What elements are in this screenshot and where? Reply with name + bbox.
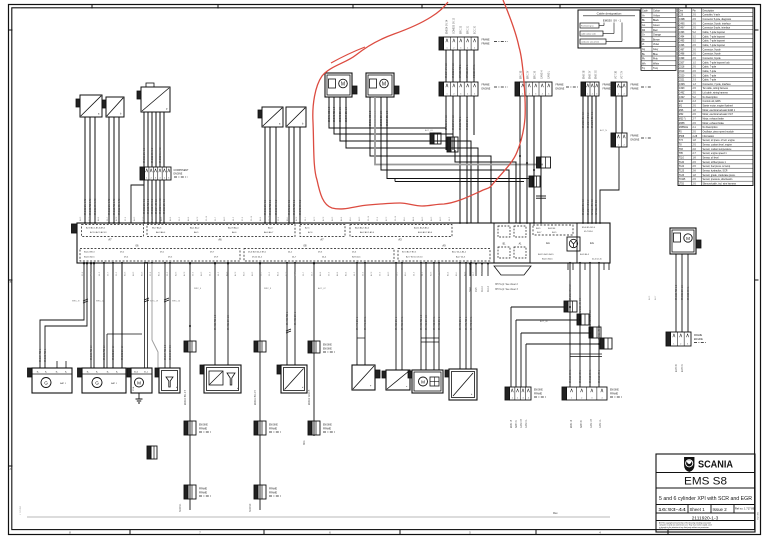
- inline connector on EGR wires: [430, 133, 434, 144]
- ENGINE FRAME connector x260: [254, 421, 281, 435]
- riser wires large aftertreatment unit: [214, 263, 216, 365]
- svg-text:T125: T125: [679, 171, 685, 173]
- frame fold marks bottom: [129, 530, 131, 535]
- svg-text:2: 2: [581, 398, 582, 400]
- svg-text:EM538 RD-1: EM538 RD-1: [460, 116, 462, 130]
- aftertreatment control unit: [200, 365, 241, 393]
- svg-text:A7-7 B7-10 07-10: A7-7 B7-10 07-10: [406, 256, 423, 259]
- svg-text:EM598 BK-2.5: EM598 BK-2.5: [170, 344, 172, 360]
- svg-text:ENGINE: ENGINE: [694, 339, 703, 341]
- svg-text:EMS3Y YE-0.8: EMS3Y YE-0.8: [588, 199, 590, 215]
- svg-text:ACC_01: ACC_01: [425, 129, 433, 132]
- svg-text:B4-14 B9-3: B4-14 B9-3: [84, 252, 95, 254]
- svg-text:Sensor, coolant level, engine: Sensor, coolant level, engine: [703, 144, 733, 147]
- vertical riser x516: [455, 150, 516, 223]
- svg-text:C499: C499: [679, 58, 685, 60]
- svg-text:EM612 GN-1: EM612 GN-1: [590, 369, 592, 383]
- svg-text:Information: Information: [703, 135, 715, 138]
- wires from connector to ECU: [143, 180, 145, 223]
- svg-text:A6: A6: [218, 238, 222, 242]
- DEF pump unit: [277, 365, 307, 393]
- svg-text:Sensor, oil level: Sensor, oil level: [703, 157, 720, 160]
- svg-text:A6-6 A6-7: A6-6 A6-7: [264, 231, 274, 234]
- motor actuator M26: [325, 73, 357, 97]
- svg-text:EM534 SV-1.5: EM534 SV-1.5: [446, 62, 448, 78]
- svg-text:A9-2 04-1 A4-2: A9-2 04-1 A4-2: [452, 251, 467, 254]
- ECU bottom row pin group 06: [80, 249, 240, 262]
- wires from sensor stack down: [143, 112, 145, 167]
- svg-text:Sensor, fuel press. w/ temp: Sensor, fuel press. w/ temp: [703, 165, 731, 168]
- svg-text:EM501 GN-0.75: EM501 GN-0.75: [95, 198, 97, 215]
- svg-text:WRC_19: WRC_19: [150, 301, 159, 303]
- EMS wires down to ECU: [582, 96, 584, 223]
- svg-text:conductor area (mm²): conductor area (mm²): [581, 41, 600, 44]
- riser wires sensor x357: [356, 263, 358, 365]
- svg-text:Blue: Blue: [653, 53, 658, 56]
- battery G1 wires staircase: [40, 263, 84, 368]
- svg-text:CAN3 H: CAN3 H: [541, 70, 544, 79]
- svg-text:EMS3G GN-0.8: EMS3G GN-0.8: [592, 111, 594, 128]
- wire motor M32 w3 staircase to ECU: [381, 97, 509, 223]
- svg-text:09-14: 09-14: [206, 215, 208, 221]
- svg-text:03-6 B23 44-5 B9-1: 03-6 B23 44-5 B9-1: [248, 252, 267, 254]
- svg-text:4: 4: [467, 94, 468, 96]
- svg-text:A7: A7: [320, 238, 324, 242]
- wires sensor x449: [459, 263, 461, 369]
- svg-text:3: 3: [591, 398, 592, 400]
- inline connector stepover 2: [577, 314, 581, 325]
- ECU top row pin group A7 second: [300, 225, 345, 237]
- svg-text:Connector 5-pole, diagnosis: Connector 5-pole, diagnosis: [703, 18, 732, 21]
- Scania griffin logo: [685, 458, 695, 472]
- svg-text:FRAME: FRAME: [556, 84, 565, 87]
- sensor stack component T85: [137, 83, 170, 112]
- svg-text:FRAME: FRAME: [603, 88, 612, 91]
- ECU top row pin group A6: [147, 225, 295, 237]
- svg-text:M26: M26: [679, 110, 684, 112]
- svg-text:C29: C29: [679, 15, 684, 17]
- svg-text:49-7 B5-6: 49-7 B5-6: [584, 231, 594, 233]
- svg-text:ERC 36: ERC 36: [535, 70, 537, 79]
- wire motor M26 w4 staircase to ECU: [346, 97, 478, 223]
- svg-text:WRC_N: WRC_N: [72, 301, 80, 303]
- CAN pair tie lines: [536, 195, 546, 197]
- svg-text:EM539 BU-1: EM539 BU-1: [467, 116, 469, 130]
- svg-text:Connector, 9-pole: Connector, 9-pole: [703, 48, 722, 51]
- svg-text:B6-7 A6-6: B6-7 A6-6: [152, 227, 162, 230]
- svg-text:T110: T110: [679, 158, 685, 160]
- svg-text:EM555 WH-0.5: EM555 WH-0.5: [160, 198, 162, 214]
- svg-text:VGT 3B: VGT 3B: [616, 70, 618, 79]
- svg-text:ACC_07: ACC_07: [318, 287, 326, 290]
- svg-text:P508: P508: [679, 136, 685, 138]
- svg-text:ERC32 RD-1: ERC32 RD-1: [460, 64, 462, 78]
- svg-text:1: 1: [446, 94, 447, 96]
- svg-text:AB Scania, Sweden: AB Scania, Sweden: [659, 528, 674, 531]
- svg-text:Connector, 9-pole: Connector, 9-pole: [703, 57, 722, 60]
- svg-text:FRAME: FRAME: [199, 428, 208, 431]
- svg-text:EM502 RD-0.75: EM502 RD-0.75: [90, 198, 92, 215]
- svg-text:EMS 3B: EMS 3B: [584, 70, 586, 79]
- svg-text:EM503 BU-0.75: EM503 BU-0.75: [85, 198, 87, 215]
- motor actuator M32: [366, 73, 399, 97]
- svg-text:2: 2: [624, 94, 625, 96]
- svg-text:EMS 16: EMS 16: [571, 419, 573, 428]
- svg-text:C519: C519: [679, 71, 685, 73]
- sensor box x386: [382, 370, 410, 390]
- wires from motor M26: [328, 97, 330, 128]
- ECU left black tab: [72, 224, 78, 233]
- svg-text:EMS S8: EMS S8: [684, 476, 727, 488]
- svg-text:09-10: 09-10: [482, 285, 484, 292]
- svg-text:C49Y: C49Y: [679, 28, 685, 30]
- svg-text:2: 2: [453, 48, 454, 50]
- svg-text:2: 2: [680, 344, 681, 346]
- sensor box x352: [352, 365, 380, 390]
- svg-text:C49Z: C49Z: [679, 93, 685, 95]
- legend colour code table: [641, 8, 676, 70]
- pin label fringe above ECU strip: [80, 215, 451, 221]
- svg-text:ACC_N: ACC_N: [600, 129, 607, 132]
- svg-text:C49N: C49N: [679, 84, 685, 86]
- wire motor M26 w1 to frame connector: [329, 97, 446, 150]
- svg-text:ENGINE: ENGINE: [556, 89, 565, 91]
- svg-text:ENGINE: ENGINE: [323, 349, 332, 351]
- svg-text:EM513 BU-0.75: EM513 BU-0.75: [109, 198, 111, 215]
- wires below lower frame connector: [445, 96, 447, 135]
- wires between frame connectors: [445, 50, 447, 82]
- svg-text:5 and 6 cylinder XPI with SCR: 5 and 6 cylinder XPI with SCR and EGR: [659, 496, 752, 502]
- ENGINE ENGINE connector x314: [308, 341, 335, 353]
- svg-text:ERC 3Y: ERC 3Y: [528, 70, 530, 79]
- svg-text:ECC30 GN-1: ECC30 GN-1: [474, 64, 476, 78]
- svg-text:No Description: No Description: [703, 126, 719, 129]
- FRAME FRAME connector x190: [184, 485, 211, 499]
- svg-text:C493: C493: [679, 32, 685, 34]
- svg-text:EM530 SV - 1: EM530 SV - 1: [603, 19, 622, 23]
- svg-text:Cable, 7-pole bayonet: Cable, 7-pole bayonet: [703, 35, 726, 38]
- wire motor M26 w2 to frame connector: [334, 97, 453, 150]
- svg-text:5: 5: [474, 94, 475, 96]
- ENGINE FRAME connector bottom right: [562, 387, 622, 400]
- svg-text:CAN 0 L: CAN 0 L: [525, 419, 528, 428]
- svg-text:EM573 GN-0.5: EM573 GN-0.5: [300, 199, 302, 215]
- DEF riser wires: [164, 263, 166, 368]
- svg-text:3: 3: [535, 94, 536, 96]
- svg-text:T85: T85: [679, 153, 684, 155]
- stepover wires to ENGINE FRAME connector left: [511, 307, 565, 387]
- svg-text:Colour: Colour: [653, 10, 660, 13]
- ECU section EG with Y symbol: [567, 237, 580, 251]
- svg-text:16:93-44: 16:93-44: [658, 507, 686, 513]
- svg-text:EM535 SV-1.5: EM535 SV-1.5: [453, 62, 455, 78]
- svg-text:CAN 0 H: CAN 0 H: [520, 419, 523, 428]
- svg-text:Oscillator, piezo speed module: Oscillator, piezo speed module: [703, 131, 735, 134]
- svg-text:5: 5: [474, 48, 475, 50]
- svg-text:T120: T120: [679, 162, 685, 164]
- ENGINE FRAME connector x190: [184, 421, 211, 435]
- gray wire to DEF: [152, 263, 158, 368]
- battery G1: [28, 368, 73, 393]
- frame connector strip upper: [439, 37, 508, 50]
- sensor T "a" box top-left: [76, 95, 102, 117]
- SCR wire with connectors x190: [189, 263, 191, 510]
- svg-text:FRAME: FRAME: [482, 43, 491, 46]
- svg-text:C496: C496: [679, 45, 685, 47]
- svg-text:04-4: 04-4: [470, 287, 472, 292]
- svg-text:3: 3: [522, 398, 523, 400]
- wires right motor down: [675, 254, 677, 332]
- svg-text:Grey: Grey: [653, 48, 659, 51]
- svg-text:T124: T124: [679, 166, 685, 168]
- svg-text:M: M: [686, 236, 690, 241]
- svg-text:FRAME: FRAME: [482, 39, 491, 42]
- svg-text:ERC 32: ERC 32: [461, 25, 463, 34]
- svg-text:Code: Code: [642, 10, 648, 13]
- EMS connector strip: [581, 82, 623, 96]
- svg-text:EXH 31: EXH 31: [682, 363, 684, 372]
- XPI note trapezoid: [494, 266, 531, 275]
- svg-text:WRC_6: WRC_6: [194, 288, 202, 290]
- svg-text:4: 4: [601, 398, 602, 400]
- svg-text:WRC_10: WRC_10: [172, 301, 181, 303]
- svg-text:Violet: Violet: [653, 43, 659, 46]
- svg-text:1: 1: [512, 398, 513, 400]
- svg-text:B-: B-: [116, 372, 118, 374]
- svg-text:T73: T73: [679, 140, 684, 142]
- svg-text:NAB30 YE-0.8: NAB30 YE-0.8: [579, 297, 582, 313]
- svg-text:ACC_06: ACC_06: [540, 320, 548, 323]
- svg-text:6: 6: [168, 178, 169, 180]
- svg-text:C520: C520: [679, 75, 685, 77]
- svg-text:EM562 RD-0.5: EM562 RD-0.5: [270, 199, 272, 215]
- svg-text:C507: C507: [679, 62, 685, 64]
- svg-text:C497: C497: [679, 49, 685, 51]
- svg-text:LT55: LT55: [679, 184, 685, 186]
- svg-text:White: White: [653, 62, 660, 65]
- svg-text:EM470 BU-1: EM470 BU-1: [460, 316, 462, 330]
- svg-text:4: 4: [542, 94, 543, 96]
- svg-text:B-: B-: [65, 372, 67, 374]
- svg-text:FRAME: FRAME: [199, 492, 208, 495]
- svg-text:Orange: Orange: [653, 34, 662, 37]
- svg-text:XPI 6-cyl: See sheet 3: XPI 6-cyl: See sheet 3: [495, 288, 518, 291]
- svg-text:09-12: 09-12: [488, 285, 490, 292]
- inline connector on wire x260: [254, 341, 258, 352]
- svg-text:5: 5: [164, 178, 165, 180]
- svg-text:3: 3: [460, 94, 461, 96]
- svg-text:1: 1: [587, 94, 588, 96]
- svg-text:M33 *): M33 *): [679, 119, 686, 121]
- svg-text:3: 3: [155, 178, 156, 180]
- svg-text:3: 3: [596, 94, 597, 96]
- svg-text:EM622 GN-1: EM622 GN-1: [688, 286, 690, 300]
- svg-text:EM594 RD-1: EM594 RD-1: [40, 348, 42, 362]
- SCR wire with connectors x260: [259, 263, 261, 510]
- svg-text:EM553 GN-0.5: EM553 GN-0.5: [152, 147, 154, 163]
- svg-text:EM620 RD-1.5: EM620 RD-1.5: [676, 284, 678, 300]
- right motor M485: [670, 228, 701, 254]
- inline connector stepover 4: [600, 338, 604, 349]
- svg-text:Red: Red: [653, 29, 658, 32]
- svg-text:XPI 5-cyl: See sheet 2: XPI 5-cyl: See sheet 2: [495, 283, 518, 286]
- svg-text:Ref no. 1 717 893: Ref no. 1 717 893: [735, 507, 756, 511]
- CAN connector strip: [515, 82, 578, 96]
- svg-text:C498: C498: [679, 54, 685, 56]
- svg-text:B4-13/4: B4-13/4: [548, 228, 556, 230]
- svg-text:CAN 1 H: CAN 1 H: [590, 419, 593, 428]
- small connector mid-left: [147, 446, 151, 459]
- svg-text:A9: A9: [442, 244, 446, 248]
- svg-text:FRAME: FRAME: [269, 428, 278, 431]
- svg-text:2: 2: [151, 178, 152, 180]
- CAN wire junction dots: [519, 155, 521, 157]
- svg-text:CAN1L YE-0.8: CAN1L YE-0.8: [595, 199, 598, 215]
- title block: [656, 454, 755, 532]
- svg-text:EM621 BK-1.5: EM621 BK-1.5: [682, 284, 684, 300]
- svg-text:EM462 GN-1: EM462 GN-1: [434, 316, 436, 330]
- svg-text:A7: A7: [108, 238, 112, 242]
- svg-text:ERC 31: ERC 31: [468, 25, 470, 34]
- svg-text:Turq: Turq: [653, 67, 658, 70]
- svg-text:EM463 BU-1: EM463 BU-1: [439, 316, 441, 330]
- svg-text:SCANIA: SCANIA: [698, 460, 733, 471]
- svg-text:CAN1H GN-0.8: CAN1H GN-0.8: [589, 309, 592, 326]
- inline connector on EGR wires 2: [447, 137, 458, 152]
- svg-text:Sensor, pressure, aftertreatm.: Sensor, pressure, aftertreatm.: [703, 178, 734, 181]
- svg-text:Vt: Vt: [642, 43, 645, 46]
- svg-text:EXH 30: EXH 30: [676, 363, 678, 372]
- pin label fringe below ECU strip: [82, 271, 484, 276]
- sensor wire with connectors x314: [313, 263, 315, 436]
- svg-text:A4-7 04-3: A4-7 04-3: [456, 256, 466, 259]
- EMS main bundle down: [569, 263, 571, 387]
- svg-text:Brown: Brown: [653, 38, 660, 41]
- svg-text:VGT 3Y: VGT 3Y: [622, 70, 624, 79]
- svg-text:Cable, 7-pole bayonet: Cable, 7-pole bayonet: [703, 40, 726, 43]
- sensor T "b" box: [102, 97, 124, 117]
- wires from motor M32: [369, 97, 371, 135]
- ECU bottom row pin group A9: [398, 249, 490, 262]
- svg-text:EM553 GN-0.5: EM553 GN-0.5: [152, 198, 154, 214]
- svg-text:4: 4: [159, 178, 160, 180]
- svg-text:B4-15 B4-5: B4-15 B4-5: [542, 259, 553, 261]
- title block reference cells: [658, 505, 756, 514]
- ECU section EA: [533, 225, 573, 235]
- PCM riser wires: [144, 263, 146, 368]
- svg-text:A6-1 A6-2: A6-1 A6-2: [190, 227, 200, 230]
- svg-text:T1925: T1925: [679, 179, 686, 181]
- svg-text:EM561 BU-0.5: EM561 BU-0.5: [265, 199, 267, 215]
- svg-text:EM597 RD-2.5: EM597 RD-2.5: [165, 344, 167, 360]
- svg-text:Motor, exhaust brake: Motor, exhaust brake: [703, 118, 725, 121]
- svg-text:EM563 GN-0.5: EM563 GN-0.5: [276, 199, 278, 215]
- svg-text:Cable, 7-pole bayonet: Cable, 7-pole bayonet: [703, 31, 726, 34]
- svg-text:EM461 BK-1.5: EM461 BK-1.5: [426, 314, 428, 330]
- svg-text:FRAME: FRAME: [269, 492, 278, 495]
- svg-text:cable colour code: cable colour code: [581, 33, 596, 36]
- svg-text:EMS 3G: EMS 3G: [596, 70, 598, 79]
- svg-text:09-14 04-5: 09-14 04-5: [252, 257, 263, 259]
- svg-text:NAB 31: NAB 31: [515, 419, 518, 428]
- dimension line bottom: [27, 516, 610, 518]
- svg-text:EM410 BU-0.5: EM410 BU-0.5: [185, 389, 187, 405]
- svg-text:EM534 SV 34: EM534 SV 34: [447, 19, 449, 34]
- svg-text:EMS3B GN-0.8: EMS3B GN-0.8: [583, 198, 585, 215]
- svg-text:ENGINE: ENGINE: [482, 89, 491, 91]
- svg-text:09-14: 09-14: [269, 215, 271, 221]
- svg-text:CAN 1 L: CAN 1 L: [599, 419, 602, 428]
- svg-text:EM440 BU-1: EM440 BU-1: [357, 316, 359, 330]
- svg-text:EM420 RD-1.5: EM420 RD-1.5: [215, 314, 217, 330]
- red hand-drawn annotation circle: [313, 0, 525, 209]
- svg-text:EM554 YE-0.5: EM554 YE-0.5: [156, 198, 158, 214]
- junction dots EMS bundle: [569, 306, 571, 308]
- svg-text:EM441 GN-1: EM441 GN-1: [365, 316, 367, 330]
- svg-text:09-14: 09-14: [368, 215, 370, 221]
- svg-text:A: A: [10, 467, 12, 471]
- svg-text:Motor, exhaust brake: Motor, exhaust brake: [703, 122, 725, 125]
- DEF unit: [155, 368, 180, 393]
- frame fold marks left: [9, 29, 13, 31]
- svg-text:ENGINE: ENGINE: [269, 425, 278, 427]
- svg-text:ENGINE: ENGINE: [199, 425, 208, 427]
- svg-text:EM613 YE-1: EM613 YE-1: [599, 369, 601, 383]
- svg-text:FRAME: FRAME: [603, 84, 612, 87]
- svg-text:EM511 GN-0.75: EM511 GN-0.75: [119, 198, 121, 215]
- svg-text:Sensor, oil/fuel press 1: Sensor, oil/fuel press 1: [703, 161, 727, 164]
- svg-text:Lid cable, wiring harness: Lid cable, wiring harness: [703, 92, 729, 95]
- svg-text:B-: B-: [45, 372, 47, 374]
- svg-text:4: 4: [528, 398, 529, 400]
- battery G2 riser wires: [103, 263, 105, 368]
- svg-text:3: 3: [460, 48, 461, 50]
- svg-text:Sensor, hydraulics, SCR: Sensor, hydraulics, SCR: [703, 170, 728, 173]
- svg-text:Issue 2: Issue 2: [713, 507, 728, 512]
- svg-text:09-14: 09-14: [395, 215, 397, 221]
- svg-text:SCR UF: SCR UF: [250, 503, 252, 512]
- svg-text:Sensor, engine speed 1: Sensor, engine speed 1: [703, 152, 728, 155]
- svg-text:FRAME: FRAME: [323, 428, 332, 431]
- svg-text:EM591 RD-16: EM591 RD-16: [104, 345, 106, 360]
- sensor box x449: [445, 369, 477, 400]
- svg-text:T83: T83: [679, 149, 684, 151]
- svg-text:Cable, 7-pole: Cable, 7-pole: [703, 71, 717, 73]
- svg-text:B4-16 B2-5: B4-16 B2-5: [84, 257, 95, 259]
- svg-text:FRAME: FRAME: [631, 88, 640, 91]
- svg-text:1: 1: [618, 145, 619, 147]
- svg-text:EM552 RD-0.5: EM552 RD-0.5: [148, 198, 150, 214]
- svg-text:EM555 WH-0.5: EM555 WH-0.5: [160, 147, 162, 163]
- svg-text:Cable, 7-pole: Cable, 7-pole: [703, 80, 717, 82]
- wires sensor x386: [395, 263, 397, 370]
- svg-text:M: M: [421, 380, 425, 385]
- svg-text:C49B: C49B: [679, 19, 685, 21]
- sensor box T124: [286, 107, 306, 127]
- svg-text:PGA: PGA: [132, 386, 135, 391]
- svg-text:EM411 BU-0.5: EM411 BU-0.5: [255, 389, 257, 405]
- svg-text:CAN3 L: CAN3 L: [548, 70, 551, 79]
- svg-text:02-5 02-15: 02-5 02-15: [592, 259, 603, 261]
- ECU top row pin group A3: [350, 225, 452, 237]
- svg-text:COM530 SV 15: COM530 SV 15: [454, 17, 456, 34]
- svg-text:M32: M32: [679, 114, 684, 116]
- riser wires DEF pump unit: [286, 263, 288, 365]
- VGT connector strip: [611, 82, 651, 96]
- svg-text:BAT 1: BAT 1: [60, 382, 67, 385]
- svg-text:1: 1: [571, 398, 572, 400]
- svg-text:1: 1: [146, 178, 147, 180]
